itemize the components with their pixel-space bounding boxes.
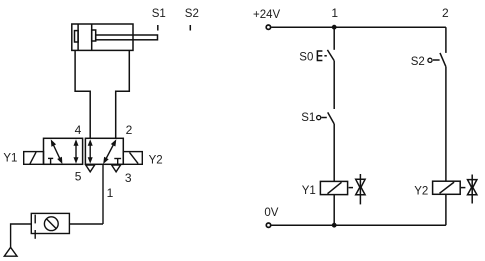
solenoid Y1 box — [24, 152, 44, 165]
rod flange — [92, 30, 96, 41]
relay coil Y2 — [433, 181, 461, 194]
svg-text:S2: S2 — [411, 56, 425, 68]
right box vertical flow arrow — [89, 143, 91, 159]
svg-text:Y2: Y2 — [149, 154, 163, 166]
tube cylinder right port to valve port 2 — [116, 50, 130, 138]
svg-text:S2: S2 — [185, 8, 199, 20]
svg-text:1: 1 — [331, 6, 338, 20]
0V terminal — [266, 223, 270, 227]
dash coil Y1 to valve symbol — [349, 187, 353, 189]
exhaust triangle port 5 — [86, 165, 95, 172]
svg-text:0V: 0V — [264, 207, 278, 219]
contact S1 blade — [328, 112, 334, 123]
svg-text:2: 2 — [126, 123, 133, 137]
service unit dashed line — [34, 215, 36, 224]
+24V rail — [271, 26, 446, 28]
tube cylinder left port to valve port 4 — [75, 50, 90, 138]
piston rod — [96, 35, 158, 40]
dash coil Y2 to valve symbol — [461, 187, 465, 189]
S2 roller actuator — [428, 58, 432, 62]
svg-text:Y1: Y1 — [3, 153, 17, 165]
supply line port 1 — [102, 164, 104, 224]
wire S2 to coil Y2 — [445, 67, 447, 182]
wire S1 to coil Y1 — [333, 124, 335, 182]
svg-text:1: 1 — [107, 186, 114, 200]
service unit circle — [44, 217, 58, 231]
svg-text:+24V: +24V — [253, 9, 281, 21]
0V rail — [271, 224, 446, 226]
contact S0 blade — [327, 50, 334, 61]
wire coil Y1 to 0V — [333, 195, 335, 226]
piston — [77, 24, 79, 50]
solenoid Y2 box — [123, 152, 142, 165]
junction dot top rail — [332, 25, 337, 30]
rung 1 wire upper — [333, 27, 335, 50]
wire coil Y2 to 0V — [445, 194, 447, 225]
relay coil Y1 — [320, 181, 347, 194]
valve symbol at Y2 — [471, 175, 473, 204]
pipe left of service unit — [11, 224, 32, 247]
svg-text:S1: S1 — [152, 8, 166, 20]
sensor mark S1 — [157, 25, 159, 31]
svg-text:Y1: Y1 — [302, 185, 316, 197]
svg-text:S0: S0 — [299, 51, 313, 63]
svg-text:Y2: Y2 — [414, 186, 428, 198]
air service unit box — [31, 213, 69, 233]
pipe service unit to supply — [69, 223, 103, 225]
svg-text:S1: S1 — [301, 112, 315, 124]
right box blocked port T — [114, 158, 121, 160]
S1 roller actuator — [317, 116, 321, 120]
cylinder 1A body — [72, 24, 133, 50]
piston magnet — [75, 31, 79, 42]
svg-text:4: 4 — [75, 123, 82, 137]
air source triangle — [4, 247, 17, 256]
contact S2 blade — [440, 53, 446, 67]
valve symbol at Y1 — [359, 174, 361, 204]
junction dot bottom rail — [332, 223, 337, 228]
svg-text:2: 2 — [442, 6, 449, 20]
svg-text:3: 3 — [125, 171, 132, 185]
exhaust triangle port 3 — [112, 165, 121, 172]
right box diagonal flow arrow port1 to port2 — [105, 143, 114, 161]
wire S0 to S1 — [333, 60, 335, 109]
left box vertical flow arrow — [75, 143, 77, 159]
svg-text:5: 5 — [75, 170, 82, 184]
valve 1V1 left position box — [44, 138, 83, 164]
left box blocked port T — [48, 157, 53, 159]
left box crossed flow arrow — [53, 143, 61, 160]
+24V terminal — [266, 25, 270, 29]
sensor mark S2 — [189, 25, 191, 31]
S0 pushbutton actuator — [317, 51, 322, 61]
valve 1V1 right position box — [85, 138, 123, 164]
rung 2 wire upper — [445, 27, 447, 53]
